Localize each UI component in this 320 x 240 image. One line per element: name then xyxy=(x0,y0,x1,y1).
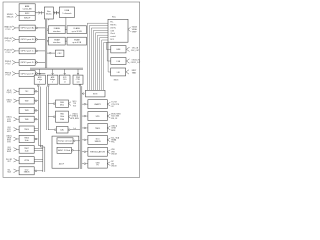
RCC block xyxy=(108,19,128,42)
TIM17 wire to bus xyxy=(34,147,43,149)
svg-text:SPI1: SPI1 xyxy=(96,116,100,118)
bus crossing C xyxy=(57,11,60,14)
bridge block APB bridge 1 xyxy=(39,69,41,75)
GPIO port A block xyxy=(19,25,35,31)
USART1 pin label xyxy=(107,102,110,104)
TIM1 block xyxy=(56,111,69,122)
svg-text:IN1, IN2: IN1, IN2 xyxy=(6,159,12,161)
TIM14 wire to bus xyxy=(34,127,38,129)
REGULATOR block xyxy=(88,147,107,156)
wire CPU to bus matrix xyxy=(35,12,44,14)
svg-text:TIM6: TIM6 xyxy=(25,119,29,121)
svg-text:2: 2 xyxy=(52,82,53,84)
svg-text:FT I/O: FT I/O xyxy=(6,75,11,77)
ADC block xyxy=(57,147,71,153)
I2C2 wire to bus xyxy=(35,170,37,172)
svg-text:TIM16: TIM16 xyxy=(24,138,29,140)
svg-text:FT I/O: FT I/O xyxy=(6,40,11,42)
TIM16 block xyxy=(19,135,34,142)
svg-text:FT I/O: FT I/O xyxy=(6,63,11,65)
APB2 bus vertical xyxy=(45,87,47,130)
svg-text:FT I/O: FT I/O xyxy=(6,29,11,31)
TIM14 block xyxy=(19,126,34,133)
wire bus matrix down to AHB bus xyxy=(48,19,50,20)
wire RCC to HSE xyxy=(106,42,111,49)
svg-text:LSI: LSI xyxy=(117,72,120,74)
svg-text:SW-DP: SW-DP xyxy=(24,18,31,20)
svg-text:TIM3: TIM3 xyxy=(25,110,29,112)
I2C2 block xyxy=(19,167,34,175)
DAC wire right xyxy=(68,129,70,131)
TIM3 block xyxy=(19,107,34,113)
wire bridge4 down xyxy=(79,85,81,87)
svg-text:CH[4:1]: CH[4:1] xyxy=(6,99,12,101)
TIM6 block xyxy=(19,116,34,122)
svg-text:REGULATOR: REGULATOR xyxy=(90,151,106,154)
svg-text:PLL: PLL xyxy=(110,21,113,23)
DAC block xyxy=(56,127,68,134)
svg-text:control: control xyxy=(110,35,116,38)
SPI1 wire to bus xyxy=(84,115,86,117)
LSI block xyxy=(111,68,126,76)
svg-text:OSC32_OUT: OSC32_OUT xyxy=(131,62,141,64)
svg-text:GPIO port D: GPIO port D xyxy=(21,61,35,64)
svg-text:DMA: DMA xyxy=(65,9,70,12)
svg-text:GPIO port B: GPIO port B xyxy=(21,38,35,41)
svg-text:SRAM: SRAM xyxy=(54,39,60,42)
svg-text:CH[2:1]: CH[2:1] xyxy=(6,135,12,137)
svg-text:interface: interface xyxy=(53,30,60,33)
svg-text:SMBUS: SMBUS xyxy=(95,141,102,143)
bus crossing B xyxy=(54,11,57,14)
TIM6 wire to bus xyxy=(35,118,37,120)
svg-text:Temp sensor: Temp sensor xyxy=(58,141,73,143)
DBGMCU wire xyxy=(53,103,55,105)
svg-text:TIM14: TIM14 xyxy=(24,129,29,131)
svg-text:EXTI: EXTI xyxy=(93,94,98,96)
temp sensor block xyxy=(57,138,73,144)
GPIO port B wire to bus xyxy=(36,39,38,41)
svg-text:SMBUS: SMBUS xyxy=(24,172,30,174)
wire flash to bus xyxy=(47,29,49,31)
GPIO port D block xyxy=(19,60,35,66)
GPIO port C block xyxy=(19,48,35,54)
sram memory block xyxy=(67,37,87,45)
outer frame xyxy=(3,2,140,177)
GPIO port F wire to bus xyxy=(36,73,38,75)
APB1 bus vertical xyxy=(38,87,43,172)
DBGMCU block xyxy=(56,100,69,107)
svg-text:ARM: ARM xyxy=(25,5,30,8)
GPIO port F block xyxy=(19,71,35,77)
svg-text:CHN[3:1]: CHN[3:1] xyxy=(72,116,79,118)
svg-text:up to 4 KB: up to 4 KB xyxy=(72,41,82,44)
svg-text:interface: interface xyxy=(53,41,60,44)
svg-text:RCC: RCC xyxy=(110,39,115,41)
USB block xyxy=(88,159,107,168)
USB wire to bus xyxy=(84,163,86,165)
AHB bus vertical xyxy=(44,20,46,69)
svg-text:WS, CK: WS, CK xyxy=(111,118,118,120)
wire sram to bus xyxy=(47,40,49,42)
LPTIM wire to bus xyxy=(34,158,43,160)
svg-text:Clock: Clock xyxy=(110,33,115,35)
svg-text:ETR, BKIN: ETR, BKIN xyxy=(71,118,80,120)
svg-text:16-bit: 16-bit xyxy=(60,115,65,118)
svg-text:1 ch: 1 ch xyxy=(73,128,76,130)
svg-text:IO[4:1]: IO[4:1] xyxy=(7,92,12,94)
REGULATOR pin label xyxy=(107,150,110,152)
wire bus matrix to DMA xyxy=(53,12,59,14)
EXTI block xyxy=(86,90,106,97)
TIM15 wire to bus xyxy=(84,127,86,129)
TIM15 block xyxy=(88,124,107,133)
TIM2 block xyxy=(19,98,34,105)
TIM1 wire xyxy=(53,116,55,118)
svg-text:FLASH: FLASH xyxy=(74,27,81,30)
svg-text:LSI RC: LSI RC xyxy=(110,27,116,29)
svg-text:SRAM: SRAM xyxy=(74,39,80,42)
svg-text:CH[2:1]: CH[2:1] xyxy=(6,117,12,119)
HSE oscillator block xyxy=(111,46,126,53)
svg-text:PWM: PWM xyxy=(60,119,65,121)
I2C1 pin label xyxy=(107,138,110,140)
svg-text:FLASH: FLASH xyxy=(54,27,61,30)
svg-text:OUT: OUT xyxy=(7,161,10,163)
svg-text:CH1: CH1 xyxy=(7,147,10,149)
USART1 wire to bus xyxy=(84,103,86,105)
TSC wire to bus xyxy=(35,91,37,93)
wire RCC to LSI xyxy=(108,42,111,72)
bridge block PWR CTRL unit xyxy=(77,69,79,75)
EXTI wire to bus xyxy=(83,93,85,95)
temp sensor wire xyxy=(74,140,76,142)
wire DMA down xyxy=(65,18,67,26)
LPTIM block xyxy=(19,157,34,164)
bridge block APB bridge 2 xyxy=(52,69,54,75)
CRC block xyxy=(55,50,64,57)
DAC wire left xyxy=(54,129,56,131)
GPIO port D wire to bus xyxy=(36,62,38,64)
svg-text:FT I/O: FT I/O xyxy=(6,52,11,54)
SPI1 pin label xyxy=(107,114,110,116)
flash memory block xyxy=(67,26,87,34)
SWD fan wire xyxy=(15,13,17,15)
clock distribution wires xyxy=(87,23,108,90)
svg-text:TIM17: TIM17 xyxy=(24,148,29,150)
TIM1 pin label xyxy=(69,115,72,117)
GPIO port A wire to bus xyxy=(36,27,38,29)
svg-text:G[1:4]: G[1:4] xyxy=(7,90,12,92)
svg-text:OSC32_IN: OSC32_IN xyxy=(132,59,141,61)
svg-text:GPIO port A: GPIO port A xyxy=(21,27,35,30)
svg-text:MCU: MCU xyxy=(60,105,65,107)
USB pin label xyxy=(107,162,110,164)
TSC block xyxy=(19,88,34,94)
svg-text:OSC_OUT: OSC_OUT xyxy=(131,50,139,52)
ADC container block xyxy=(52,136,79,168)
TIM3 wire to bus xyxy=(35,110,37,112)
svg-text:I2C2: I2C2 xyxy=(25,170,29,172)
TIM15 pin label xyxy=(107,126,110,128)
bus matrix block xyxy=(44,7,53,19)
DBGMCU pin label xyxy=(69,102,72,104)
svg-text:IWDG: IWDG xyxy=(114,79,119,81)
TIM2 wire to bus xyxy=(35,100,37,102)
svg-text:CRC: CRC xyxy=(58,53,63,55)
svg-text:LPTIM: LPTIM xyxy=(24,160,30,162)
svg-text:Matrix: Matrix xyxy=(46,12,51,15)
wire bridge2 down xyxy=(48,85,50,87)
svg-text:1: 1 xyxy=(39,82,40,84)
flash interface block xyxy=(48,26,65,34)
svg-text:HSI RC: HSI RC xyxy=(110,24,117,26)
svg-text:GPIO port C: GPIO port C xyxy=(21,50,35,53)
svg-text:TIM2: TIM2 xyxy=(25,100,29,102)
svg-text:up to 32 KB: up to 32 KB xyxy=(72,30,83,33)
svg-text:GPIO port F: GPIO port F xyxy=(21,72,35,75)
SPI1 block xyxy=(88,112,107,121)
wire bridge1 down xyxy=(38,85,40,87)
svg-text:USART1: USART1 xyxy=(94,103,101,106)
svg-text:TIM15: TIM15 xyxy=(95,128,100,130)
svg-text:VDDIO: VDDIO xyxy=(111,165,117,167)
GPIO port C wire to bus xyxy=(36,50,38,52)
CPU block U1 xyxy=(19,4,35,21)
APB3 bus vertical xyxy=(79,86,81,169)
svg-text:NVIC: NVIC xyxy=(25,13,30,15)
LSE oscillator block xyxy=(111,58,126,65)
ADC wire xyxy=(72,150,74,152)
wire RCC to LSE xyxy=(107,42,111,61)
svg-text:CH1: CH1 xyxy=(7,127,10,129)
GPIO port B block xyxy=(19,37,35,43)
DMA block xyxy=(59,7,74,18)
TIM17 block xyxy=(19,146,34,154)
APB bus horizontal xyxy=(30,67,83,69)
wire CRC to bus xyxy=(50,52,52,54)
svg-text:SCL: SCL xyxy=(7,169,10,171)
I2C1 block xyxy=(88,135,107,144)
sram interface block xyxy=(48,37,65,45)
svg-text:CH[4:1]: CH[4:1] xyxy=(72,114,78,116)
svg-text:VDD18: VDD18 xyxy=(111,154,117,156)
svg-text:FM+: FM+ xyxy=(111,142,114,144)
REGULATOR wire to bus xyxy=(84,151,86,153)
svg-text:RCC: RCC xyxy=(112,16,117,18)
TIM16 wire to bus xyxy=(35,138,37,140)
svg-text:VBAT: VBAT xyxy=(132,71,136,74)
I2C1 wire to bus xyxy=(84,139,86,141)
USART1 block xyxy=(88,100,107,109)
bridge block SYS CFG ctl xyxy=(64,69,66,75)
svg-text:Cortex-M0: Cortex-M0 xyxy=(23,8,32,11)
svg-text:SWCLK: SWCLK xyxy=(7,16,14,18)
bus crossing A xyxy=(39,11,42,14)
svg-text:5 channels: 5 channels xyxy=(62,13,71,15)
